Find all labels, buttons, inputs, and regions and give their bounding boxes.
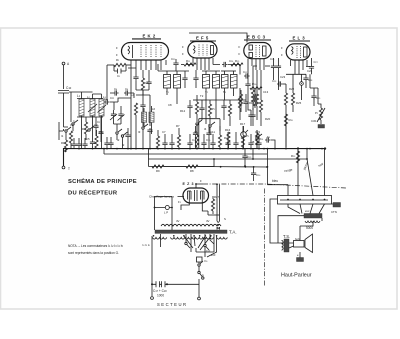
svg-text:4V: 4V bbox=[176, 219, 180, 223]
svg-text:C17 + C18: C17 + C18 bbox=[153, 289, 167, 293]
svg-text:F: F bbox=[182, 52, 184, 56]
svg-text:bob: bob bbox=[295, 237, 300, 241]
svg-text:E F 5: E F 5 bbox=[196, 36, 209, 41]
svg-text:C4: C4 bbox=[110, 96, 114, 100]
svg-text:F: F bbox=[281, 53, 283, 57]
svg-text:T: T bbox=[68, 167, 70, 171]
svg-text:R13: R13 bbox=[249, 101, 255, 105]
svg-text:DU RÉCEPTEUR: DU RÉCEPTEUR bbox=[68, 189, 118, 197]
svg-text:C7: C7 bbox=[162, 130, 166, 134]
svg-text:C23: C23 bbox=[280, 75, 286, 79]
svg-text:C2: C2 bbox=[70, 123, 74, 127]
svg-text:R8: R8 bbox=[190, 169, 194, 173]
svg-text:SCHÉMA DE PRINCIPE: SCHÉMA DE PRINCIPE bbox=[68, 177, 137, 185]
svg-text:Haut-Parleur: Haut-Parleur bbox=[281, 273, 312, 279]
svg-text:T2: T2 bbox=[200, 94, 204, 98]
svg-text:R12: R12 bbox=[180, 109, 186, 113]
svg-text:F: F bbox=[281, 46, 283, 50]
svg-text:F: F bbox=[200, 179, 202, 183]
svg-text:C3: C3 bbox=[94, 123, 98, 127]
svg-text:NOTA. – Les commutateurs I: NOTA. – Les commutateurs I1 I2 I3 I4 I5 bbox=[68, 244, 124, 248]
svg-text:L4: L4 bbox=[131, 93, 135, 97]
svg-text:C13: C13 bbox=[263, 90, 269, 94]
svg-text:5000: 5000 bbox=[306, 226, 313, 230]
svg-text:T.A.: T.A. bbox=[229, 230, 237, 235]
svg-text:R25: R25 bbox=[296, 101, 302, 105]
svg-text:exc: exc bbox=[305, 209, 310, 213]
svg-text:F: F bbox=[116, 53, 118, 57]
svg-text:sont représentés dans la p: sont représentés dans la position G. bbox=[68, 251, 119, 255]
svg-text:R9: R9 bbox=[156, 169, 160, 173]
svg-text:E Z 3: E Z 3 bbox=[183, 182, 195, 186]
svg-text:1000: 1000 bbox=[157, 294, 164, 298]
svg-text:T.S.: T.S. bbox=[283, 234, 290, 239]
svg-text:CTN: CTN bbox=[331, 210, 337, 214]
svg-text:R1: R1 bbox=[61, 141, 65, 145]
svg-text:E K 2: E K 2 bbox=[143, 34, 156, 39]
svg-text:C8: C8 bbox=[168, 103, 172, 107]
svg-text:bleu: bleu bbox=[272, 179, 278, 183]
svg-text:R7: R7 bbox=[176, 124, 180, 128]
svg-text:4V: 4V bbox=[206, 219, 210, 223]
svg-text:L P: L P bbox=[164, 211, 168, 215]
svg-text:R22: R22 bbox=[289, 87, 295, 91]
svg-text:F: F bbox=[239, 52, 241, 56]
svg-text:220: 220 bbox=[211, 253, 216, 257]
svg-text:F: F bbox=[182, 45, 184, 49]
svg-text:C30: C30 bbox=[311, 119, 317, 123]
svg-text:E L 3: E L 3 bbox=[293, 36, 306, 41]
svg-text:S: S bbox=[224, 217, 226, 221]
svg-text:R5: R5 bbox=[99, 130, 103, 134]
svg-text:R16: R16 bbox=[225, 128, 231, 132]
svg-text:F: F bbox=[116, 46, 118, 50]
svg-text:C10: C10 bbox=[66, 86, 72, 90]
svg-text:C26: C26 bbox=[307, 69, 313, 73]
svg-text:L6: L6 bbox=[152, 107, 156, 111]
svg-text:C5: C5 bbox=[86, 137, 90, 141]
svg-text:R17: R17 bbox=[240, 122, 246, 126]
svg-text:R20: R20 bbox=[265, 117, 271, 121]
svg-text:E B C 3: E B C 3 bbox=[247, 35, 266, 40]
svg-text:F: F bbox=[239, 45, 241, 49]
svg-text:R27: R27 bbox=[214, 195, 220, 199]
svg-text:SECTEUR: SECTEUR bbox=[157, 302, 188, 307]
